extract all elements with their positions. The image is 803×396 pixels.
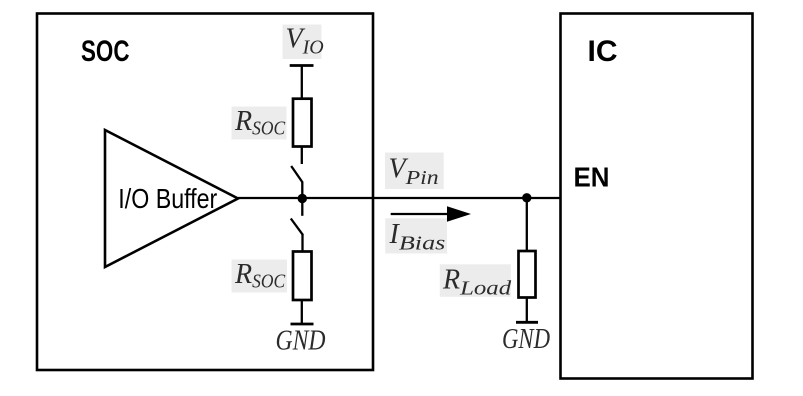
- power rail bar V_IO: [290, 64, 314, 67]
- I_Bias current label: [385, 218, 447, 254]
- svg-text:GND: GND: [502, 324, 550, 355]
- wire: pin node to switch SW2: [301, 199, 303, 216]
- resistor R_SOC (pull-up): [293, 99, 312, 147]
- I_Bias current arrow: [391, 206, 471, 222]
- svg-text:GND: GND: [276, 326, 326, 357]
- wire: switch SW2 to R_SOC pull-down: [301, 235, 303, 253]
- node: load junction: [522, 193, 531, 202]
- V_IO supply label: [283, 24, 324, 60]
- wire: R_SOC to switch SW1: [301, 147, 303, 165]
- wire: R_Load to ground: [526, 298, 528, 323]
- svg-text:IC: IC: [588, 35, 618, 68]
- wire: buffer output to EN pin of IC: [238, 197, 561, 199]
- resistor R_Load: [519, 251, 536, 298]
- svg-text:SOC: SOC: [81, 35, 130, 68]
- wire: load junction to R_Load: [526, 198, 528, 251]
- wire: V_IO rail to R_SOC pull-up: [301, 66, 303, 100]
- switch SW1 blade (open, pull-up): [291, 166, 302, 183]
- wire: R_SOC pull-down to ground: [301, 300, 303, 324]
- resistor R_SOC (pull-down): [293, 252, 312, 301]
- node: pin junction: [298, 194, 307, 203]
- V_Pin net label: [385, 153, 444, 190]
- svg-text:EN: EN: [574, 162, 610, 193]
- R_Load value label: [440, 264, 513, 299]
- wire: switch SW1 to pin node: [301, 182, 303, 199]
- svg-text:I/O Buffer: I/O Buffer: [118, 183, 217, 214]
- ground (load side): [516, 321, 538, 324]
- R_SOC pull-up value label: [232, 106, 287, 140]
- op-amp U1 (I/O buffer triangle): [105, 130, 238, 267]
- SOC block outline: [37, 14, 373, 371]
- R_SOC pull-down value label: [232, 259, 288, 293]
- switch SW2 blade (open, pull-down): [291, 219, 303, 236]
- ground (SOC side): [291, 323, 314, 326]
- IC block outline: [561, 14, 753, 379]
